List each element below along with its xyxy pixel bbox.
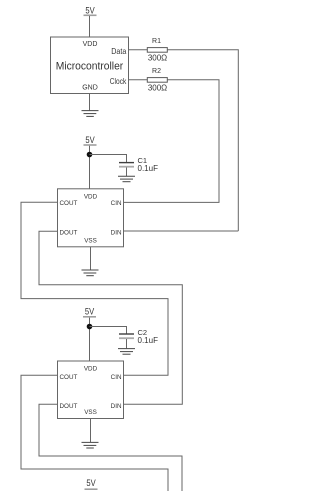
wire U1 GND to ground [89, 94, 91, 111]
svg-text:GND: GND [82, 85, 98, 92]
junction node (5V / C2) [87, 324, 93, 330]
svg-text:VSS: VSS [84, 409, 97, 416]
svg-text:300Ω: 300Ω [148, 53, 167, 62]
junction node (5V / C1) [87, 152, 93, 158]
svg-text:COUT: COUT [60, 200, 78, 207]
svg-text:5V: 5V [86, 478, 96, 489]
resistor R2 [147, 68, 167, 93]
wire R2 to U2 CIN [124, 80, 220, 203]
svg-text:R1: R1 [152, 38, 161, 45]
power 5V flag (U3 VDD net) [83, 307, 96, 318]
svg-text:VDD: VDD [83, 41, 98, 48]
svg-text:VDD: VDD [84, 194, 98, 201]
svg-text:DIN: DIN [111, 403, 122, 410]
svg-text:DIN: DIN [111, 230, 122, 237]
capacitor C1 [119, 156, 158, 173]
wire U2 VSS to ground [90, 247, 92, 270]
microcontroller U1 [51, 37, 129, 94]
svg-text:CIN: CIN [111, 200, 122, 207]
wire 5V node to C1 [90, 155, 127, 163]
wire 5V to U3 VDD [89, 318, 91, 361]
ground (U3 VSS) [82, 442, 99, 448]
ground (C1) [118, 176, 135, 182]
wire C2 to ground [126, 339, 128, 348]
wire U2 DOUT to U3 DIN [39, 231, 182, 404]
svg-text:300Ω: 300Ω [148, 84, 167, 93]
svg-text:Microcontroller: Microcontroller [56, 60, 124, 72]
wire 5V node to C2 [90, 327, 127, 334]
capacitor C2 [119, 328, 158, 345]
wire C1 to ground [126, 168, 128, 177]
wire U1 Clock to R2 [129, 79, 148, 81]
ground (microcontroller GND) [82, 111, 99, 117]
wire 5V to U2 VDD [89, 146, 91, 189]
LED driver U2 [58, 189, 124, 247]
wire U3 VSS to ground [90, 419, 92, 443]
wire U1 Data to R1 [129, 49, 148, 51]
svg-text:COUT: COUT [60, 374, 78, 381]
svg-text:0.1uF: 0.1uF [138, 164, 159, 173]
power 5V flag (microcontroller VDD net) [84, 5, 97, 16]
svg-text:DOUT: DOUT [60, 403, 78, 410]
svg-text:VDD: VDD [84, 366, 98, 373]
resistor R1 [147, 38, 167, 62]
LED driver U3 [58, 361, 124, 419]
svg-text:CIN: CIN [111, 374, 122, 381]
svg-text:DOUT: DOUT [60, 230, 78, 237]
ground (U2 VSS) [82, 270, 99, 276]
power 5V flag (U2 VDD net) [84, 135, 97, 146]
svg-text:VSS: VSS [84, 237, 97, 244]
power 5V flag (next stage VDD net, partially cut) [85, 478, 98, 489]
wire U3 DOUT to next stage DIN [39, 404, 182, 491]
wire U2 COUT to U3 CIN [21, 202, 168, 375]
wire U3 COUT to next stage CIN [21, 375, 168, 491]
svg-text:Clock: Clock [110, 76, 127, 86]
svg-text:0.1uF: 0.1uF [138, 336, 159, 345]
ground (C2) [118, 349, 135, 355]
svg-text:Data: Data [111, 46, 126, 56]
svg-text:R2: R2 [152, 68, 161, 75]
wire R1 to U2 DIN [167, 50, 238, 231]
wire 5V to U1 VDD [89, 16, 91, 37]
svg-text:5V: 5V [85, 307, 95, 318]
